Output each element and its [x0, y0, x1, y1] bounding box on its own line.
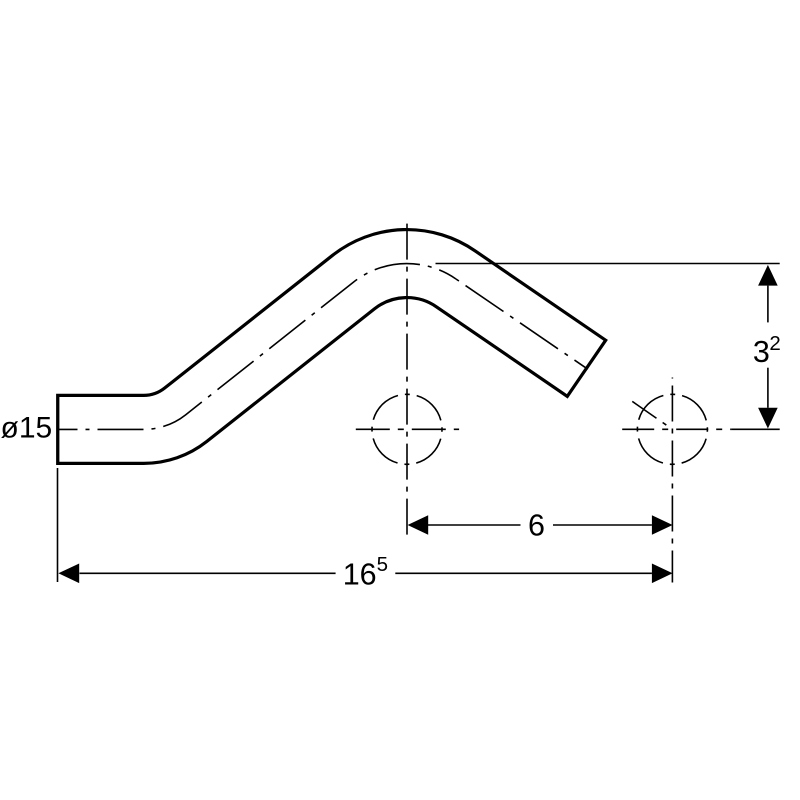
svg-text:ø15: ø15: [1, 412, 53, 445]
svg-text:6: 6: [528, 509, 545, 543]
